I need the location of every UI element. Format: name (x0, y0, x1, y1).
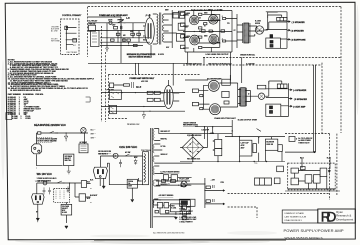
svg-text:220K 2W: 220K 2W (266, 144, 273, 146)
wire B+ vertical pair (313, 65, 315, 152)
second AC plug section (32, 180, 91, 229)
node (258, 136, 259, 137)
voltage select box 2 (61, 204, 72, 215)
node (213, 31, 214, 32)
cathode resistors R33 (200, 108, 203, 110)
svg-text:650V: 650V (165, 10, 169, 12)
bridge cross (182, 137, 203, 158)
bottom bus (180, 161, 285, 163)
label box E-1262 (181, 45, 186, 48)
fuse F2 (38, 132, 41, 134)
svg-text:B+ RELAY: B+ RELAY (89, 20, 99, 23)
node (66, 33, 67, 34)
plate wires (199, 14, 220, 47)
B+ dashed feed vertical B (336, 134, 338, 196)
wire drop (107, 23, 139, 48)
svg-text:TP1: TP1 (227, 23, 230, 25)
relay control dashed enclosure (top-left) (61, 19, 80, 55)
bias pot R62 (301, 167, 306, 170)
svg-text:1K: 1K (199, 18, 201, 20)
V1 plate (148, 23, 150, 39)
cap C13 (253, 144, 257, 153)
node (212, 126, 213, 127)
svg-text:E-1260 OUTPUT XFMR: E-1260 OUTPUT XFMR (238, 120, 258, 122)
ground (36, 167, 37, 169)
svg-text:VOLTAGE: VOLTAGE (62, 205, 69, 208)
svg-text:6.3V: 6.3V (166, 47, 169, 49)
svg-text:F-N: F-N (146, 14, 152, 18)
node (239, 136, 240, 137)
svg-text:6L6: 6L6 (136, 85, 142, 89)
ground lug (36, 218, 39, 222)
J1 contacts (257, 27, 263, 33)
bridge diamond outer (182, 137, 203, 158)
wire (153, 200, 190, 217)
label (183, 121, 215, 160)
svg-text:( 4 SPEAKER: ( 4 SPEAKER (293, 89, 307, 92)
svg-text:SEE NOTE 15 FOR BIAS ADJ: SEE NOTE 15 FOR BIAS ADJ (208, 63, 231, 66)
svg-text:10: 10 (204, 25, 206, 27)
svg-text:RLY: RLY (73, 45, 77, 47)
capacitor C2 (121, 25, 122, 31)
reg in cap C31 (164, 203, 169, 208)
switch S2 (49, 131, 56, 133)
output jack J4 (258, 93, 264, 99)
svg-text:RED/YEL: RED/YEL (161, 139, 168, 141)
wire to terminals (265, 89, 269, 96)
tie mark (86, 97, 91, 102)
secondary winding 6 (153, 199, 154, 205)
V3 internals (210, 16, 217, 23)
cap bank box1 (240, 140, 252, 156)
EQ driver tube V7 (208, 80, 219, 91)
caution dashed box (37, 137, 52, 142)
taps (153, 14, 177, 44)
svg-text:CONTROL PRIMARY: CONTROL PRIMARY (62, 14, 82, 17)
tap wires (154, 129, 192, 206)
svg-text:L1: L1 (231, 131, 233, 133)
bottom middle: heater fuse & grounds (90, 178, 141, 203)
revision stamp box (6, 113, 12, 120)
fuse F4 (43, 181, 47, 185)
PL1 internals (182, 182, 186, 186)
LT diagonal (257, 129, 261, 132)
power tube V3 (209, 15, 218, 24)
bias resistor R15 (209, 30, 212, 32)
pwr select switch box (109, 90, 121, 99)
resistor R4 (116, 33, 120, 35)
node (69, 182, 70, 183)
labels (90, 180, 97, 204)
text block (298, 137, 330, 159)
US AC input (91, 124, 143, 186)
T2 winding block (244, 23, 249, 43)
svg-text:E-1078: E-1078 (158, 54, 164, 56)
V4 grid (191, 37, 198, 44)
svg-text:PWR SW: PWR SW (89, 24, 96, 26)
ground arrow (131, 200, 134, 203)
screen resistor R10 (199, 13, 202, 15)
resistor R24 (154, 98, 160, 101)
V5 grid (210, 36, 217, 43)
DC out wire (180, 127, 232, 148)
svg-text:E-1259 BD: E-1259 BD (246, 64, 255, 66)
label box E-1258 (181, 12, 186, 15)
arrow out 6 (289, 106, 292, 107)
heater resistor R41 (171, 175, 178, 182)
neon lamp NE1 (81, 128, 86, 133)
reg in cap C30 (157, 203, 162, 208)
J3 wire (281, 106, 289, 117)
svg-text:WS 100 VAC: WS 100 VAC (37, 172, 52, 176)
dashed box left (107, 75, 109, 119)
cap C21 (48, 187, 51, 194)
P1 pin1 (34, 147, 36, 149)
secondary winding 2 (153, 144, 154, 153)
node (36, 211, 37, 212)
node (167, 180, 168, 181)
secondary wires (249, 26, 263, 36)
chassis dashed vertical A (100, 26, 102, 122)
svg-text:ALL RESISTORS 1/2W UNLESS NOTE: ALL RESISTORS 1/2W UNLESS NOTED (153, 232, 185, 235)
relay contact K1 (65, 26, 68, 29)
logo box (318, 209, 356, 223)
T2 primary taps (237, 25, 243, 40)
bridge diamond inner (187, 141, 199, 153)
V5 internals (210, 35, 218, 43)
standby switch box (291, 168, 298, 173)
svg-text:POWER AMP ASSY: POWER AMP ASSY (186, 63, 202, 66)
relay enclosure dashed box (61, 19, 80, 55)
heater resistor R40 (163, 175, 168, 180)
enclosure dashed top edge (88, 6, 341, 8)
V8 internals (211, 105, 219, 113)
svg-text:120V: 120V (112, 25, 115, 27)
label box (257, 85, 266, 89)
node (132, 30, 133, 31)
svg-text:MOV: MOV (134, 157, 137, 159)
fuse F3 (113, 153, 118, 158)
resistor R60 (305, 175, 312, 183)
T3 core (239, 88, 246, 106)
primary winding (144, 154, 146, 183)
jack block J3 (266, 104, 281, 116)
svg-text:PWR SEL: PWR SEL (107, 90, 115, 92)
node (159, 199, 160, 200)
svg-text:16. SEE SERVICE BULLETIN 55-01: 16. SEE SERVICE BULLETIN 55-01 (10, 90, 41, 92)
svg-text:LAST CAP: LAST CAP (241, 142, 250, 145)
V2 grid (191, 17, 198, 24)
secondary winding 1 (153, 129, 154, 141)
capacitor C8 (132, 82, 134, 88)
svg-text:GRN 6.3V: GRN 6.3V (161, 154, 168, 156)
V2 internals (191, 17, 198, 24)
node (121, 92, 122, 93)
wires (288, 157, 335, 189)
svg-text:MIDRANGE EQ-PREAMP/DRIVER: MIDRANGE EQ-PREAMP/DRIVER (127, 53, 156, 56)
svg-text:DRAWN BY KYNARD: DRAWN BY KYNARD (285, 212, 305, 215)
svg-text:LAST NUMBER 31-8-88: LAST NUMBER 31-8-88 (285, 216, 308, 219)
output jack J1 (255, 26, 263, 34)
P3 blade2 (40, 196, 41, 200)
relay coil K1 (73, 39, 77, 42)
bridge rectifier (180, 121, 285, 162)
node (254, 161, 255, 162)
tap labels (159, 131, 181, 197)
svg-text:REG: REG (171, 205, 175, 207)
fuse F1 (109, 21, 112, 24)
node (204, 126, 205, 127)
phase splitter / EQ driver (185, 75, 269, 115)
filter cap C11 (215, 139, 222, 148)
resistor R34 (224, 101, 229, 104)
chassis dashed vertical B (104, 52, 106, 122)
resistor R5 (122, 39, 126, 41)
svg-text:SELECT: SELECT (65, 158, 71, 160)
svg-text:6550: 6550 (187, 13, 191, 15)
wires (153, 200, 190, 215)
drawing info box (282, 210, 318, 223)
svg-text:47K: 47K (123, 34, 126, 37)
screen res R17 (221, 30, 225, 32)
standby switch box2 (291, 178, 298, 185)
K2 internals (81, 146, 87, 150)
V1 plate 2 (150, 23, 152, 39)
resistor R7 (111, 39, 115, 41)
rectifier tube V1 (145, 18, 154, 44)
speaker terminal group A (266, 12, 290, 49)
V7 internals (210, 82, 218, 90)
interconnect wires (135, 45, 241, 86)
resistor R20 (124, 84, 130, 86)
V4 internals (191, 36, 199, 44)
parts table (8, 93, 45, 120)
node (326, 188, 327, 189)
svg-text:( 2 SPEAKER: ( 2 SPEAKER (291, 30, 305, 33)
node (194, 31, 195, 32)
svg-text:POWER AMP & EQ DRIVER ASSY: POWER AMP & EQ DRIVER ASSY (99, 14, 128, 17)
node (308, 188, 309, 189)
pilot lamp PL1 (181, 181, 187, 187)
preamp & driver section (88, 14, 188, 63)
node (57, 132, 58, 133)
filter section (225, 120, 285, 172)
arrow out 4 (289, 89, 292, 90)
svg-text:LOAD LINES PER OUTPUT: LOAD LINES PER OUTPUT (206, 53, 230, 56)
svg-text:t-N: t-N (126, 16, 130, 20)
wire top (100, 156, 142, 185)
bus (266, 12, 287, 49)
28V supply section (179, 178, 329, 224)
node (135, 92, 136, 93)
svg-text:1 SET WITH NO LOAD: 1 SET WITH NO LOAD (179, 216, 197, 219)
svg-text:6.3 VOLT HEATER WIRING: 6.3 VOLT HEATER WIRING (161, 171, 181, 174)
svg-text:POWER AMP 55/5725 ONLY: POWER AMP 55/5725 ONLY (130, 77, 155, 80)
svg-text:6550: 6550 (204, 35, 208, 37)
svg-text:C10 47UF: C10 47UF (201, 129, 209, 132)
ground (106, 48, 109, 52)
ground arrow (102, 186, 105, 189)
resistor R2 (114, 26, 118, 29)
speaker terminal group B (266, 81, 292, 116)
switch S1 (118, 21, 126, 23)
heater lug A (162, 180, 166, 183)
wire (158, 177, 191, 185)
capacitor C4 (127, 39, 130, 41)
svg-text:TP6: TP6 (254, 163, 257, 165)
P2 blade2 (102, 170, 103, 174)
jack block J2 (266, 38, 281, 48)
B+ dashed feed horizontal (285, 133, 330, 135)
dashed bottom (108, 118, 128, 120)
terminal box TB1 (81, 181, 86, 188)
J3 pin2 (270, 111, 273, 114)
svg-text:NO RG BOX WS: NO RG BOX WS (98, 151, 112, 153)
svg-text:( 3 EARPHONE: ( 3 EARPHONE (291, 39, 306, 42)
svg-text:WHT WIRE: WHT WIRE (51, 41, 61, 43)
wires (70, 183, 91, 197)
node (204, 190, 205, 191)
wire (65, 26, 67, 51)
svg-text:—: — (90, 187, 92, 189)
svg-text:SEE TBL: SEE TBL (65, 160, 72, 162)
svg-text:SECTION 55/5725 MODELS: SECTION 55/5725 MODELS (129, 57, 153, 59)
EQ network box (91, 31, 100, 47)
output transformer T3 core (238, 88, 247, 106)
standby dashed box (288, 163, 336, 190)
wire right (172, 10, 188, 48)
P1 label (33, 153, 35, 155)
P1 pin2 (38, 150, 40, 152)
wire top (37, 183, 70, 194)
wires (187, 178, 222, 208)
J2 pins (270, 35, 273, 38)
dashed corner (256, 207, 258, 218)
driver tube V6 (164, 86, 173, 109)
trim resistor R71 (166, 210, 169, 213)
svg-text:SQUARE BRIDGE: SQUARE BRIDGE (187, 134, 202, 137)
T3 winding block (241, 88, 246, 106)
svg-text:WHT: WHT (87, 198, 90, 200)
V6 plates2 (169, 90, 171, 105)
node (178, 185, 179, 186)
wires (132, 178, 141, 199)
cap plus (213, 140, 215, 151)
secondary winding (162, 14, 163, 42)
resistor R23 (147, 98, 153, 101)
cap C1 (119, 160, 122, 168)
svg-text:SEA400/VDE 220/240 VAC: SEA400/VDE 220/240 VAC (34, 123, 66, 127)
vertical wires (240, 137, 282, 162)
svg-text:BLEEDER: BLEEDER (266, 141, 274, 143)
label box E-1261 (181, 35, 186, 38)
heater lug C (181, 184, 185, 187)
P3 blade1 (35, 196, 36, 200)
core lines (151, 128, 153, 228)
svg-text:PHASE SPLITTER 12AX7: PHASE SPLITTER 12AX7 (214, 117, 235, 120)
J4 contacts (259, 94, 263, 98)
E label box (289, 136, 295, 141)
plug P3 (US) (32, 194, 45, 204)
svg-text:WHT —: WHT — (91, 134, 97, 136)
svg-text:F250A: F250A (128, 180, 134, 183)
out caps C34 (183, 216, 187, 219)
res cap pair B (206, 200, 210, 203)
relay box K3 (320, 168, 327, 176)
output transformer T2 (237, 23, 250, 43)
title block (282, 209, 355, 223)
node (138, 37, 139, 38)
labels (87, 182, 91, 201)
svg-text:—: — (90, 201, 92, 203)
euro AC input (32, 128, 89, 174)
svg-text:BOX: BOX (62, 210, 65, 212)
screen resistor R13 (199, 46, 202, 48)
cap B (212, 199, 214, 202)
node (296, 138, 297, 139)
enclosure dashed divider upper (203, 56, 341, 58)
out caps C33 (183, 211, 187, 215)
wire (135, 45, 241, 86)
svg-text:SPKR: SPKR (255, 23, 261, 25)
B+ feed lines (285, 65, 316, 153)
node (149, 111, 150, 112)
resistor R50 (256, 129, 261, 132)
svg-text:PART NUMBER IN GENERAL PE: PART NUMBER IN GENERAL PER MDL (8, 93, 45, 96)
node (106, 37, 107, 38)
svg-text:4.5V RECT WINDING: 4.5V RECT WINDING (159, 194, 175, 197)
filter cap C12 (215, 149, 222, 156)
secondary winding 4 (153, 166, 154, 175)
grid resistor R31 (192, 102, 198, 105)
power tube V5 (209, 34, 219, 44)
plate wires (219, 75, 237, 107)
tap label box B (178, 11, 184, 18)
right B+ area (285, 136, 340, 191)
zener D3 (67, 186, 70, 192)
arrow out 3 (287, 39, 290, 40)
wire bus1 (100, 37, 150, 39)
wire (100, 42, 143, 45)
svg-text:C2A 130 VAC: C2A 130 VAC (119, 145, 138, 149)
dashed box top (108, 74, 200, 76)
terminal box TB2 (79, 194, 85, 201)
primary box (143, 152, 149, 185)
relay box K1 (89, 25, 96, 31)
U1 text (171, 205, 176, 209)
secondary winding 3 (153, 156, 154, 162)
svg-text:PILOT LAMP: PILOT LAMP (179, 178, 190, 181)
node (204, 183, 205, 184)
svg-text:( 1 SPEAKER: ( 1 SPEAKER (292, 21, 306, 24)
tap label box C (178, 23, 185, 30)
svg-text:( 6 EXT AMP: ( 6 EXT AMP (293, 106, 306, 109)
svg-text:SELECT: SELECT (62, 208, 68, 210)
arrow A (222, 190, 225, 191)
node (219, 42, 220, 43)
wire (103, 178, 105, 186)
svg-text:2A SB: 2A SB (108, 19, 113, 22)
trim resistor R70 (155, 210, 158, 213)
V6 plates (166, 90, 168, 105)
svg-text:RECTIFIER: RECTIFIER (67, 52, 78, 54)
box1 text (241, 142, 250, 150)
node (128, 45, 129, 46)
wire from plug top (37, 133, 85, 144)
wire B+ horiz (285, 151, 315, 153)
ground arrow (65, 226, 68, 229)
bias box E-1259 (222, 79, 231, 85)
